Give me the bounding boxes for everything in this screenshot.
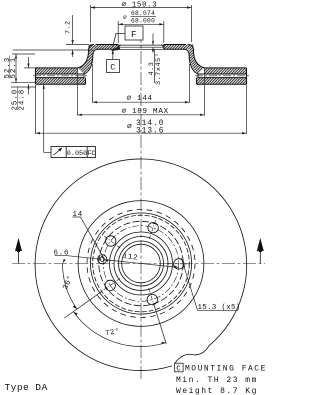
- svg-text:3.7x45°: 3.7x45°: [154, 53, 163, 85]
- hat top plate left: [96, 45, 118, 50]
- bolt hole 3: [102, 278, 120, 291]
- disc top band right: [198, 68, 247, 74]
- svg-text:112: 112: [122, 253, 138, 263]
- vent centerline right: [195, 75, 249, 77]
- feature control frame runout 0.050 FC: [43, 84, 96, 157]
- svg-text:⌀: ⌀: [127, 123, 133, 131]
- svg-text:C: C: [176, 365, 181, 373]
- dimension 112 bolt circle: [104, 259, 179, 267]
- svg-text:⌀ 150.3: ⌀ 150.3: [122, 1, 158, 9]
- svg-text:14: 14: [73, 211, 83, 219]
- svg-text:Type DA: Type DA: [5, 382, 48, 393]
- bolt boss outer circle: [99, 221, 183, 305]
- recess circle 144: [93, 215, 190, 312]
- svg-text:C: C: [110, 62, 115, 72]
- type label: [5, 382, 48, 393]
- bolt hole 2: [102, 235, 120, 248]
- dimension 189 MAX: [78, 69, 205, 117]
- datum C box: [107, 50, 120, 73]
- svg-text:6.6: 6.6: [54, 249, 70, 257]
- svg-text:MOUNTING FACE: MOUNTING FACE: [185, 365, 265, 374]
- hat top plate right: [164, 45, 186, 50]
- section cutting arrow right: [257, 238, 264, 264]
- svg-text:24.8: 24.8: [19, 89, 27, 111]
- svg-text:⌀ 189 MAX: ⌀ 189 MAX: [122, 108, 169, 116]
- bolt circle 112 dashed: [103, 226, 179, 302]
- dimension 68.074/68.000: [118, 16, 164, 43]
- outboard band inner edge circle 166: [87, 210, 195, 318]
- svg-text:313.6: 313.6: [136, 128, 164, 136]
- disc bottom band right: [197, 74, 247, 84]
- svg-text:0.050: 0.050: [67, 150, 87, 158]
- main vertical centerline: [140, 30, 142, 380]
- svg-text:68.074: 68.074: [131, 10, 155, 17]
- hat outer circle 150.3: [90, 213, 191, 314]
- label 14 with leader: [73, 217, 105, 259]
- braking inner edge circle 189: [78, 201, 204, 327]
- bore circle 68: [119, 241, 164, 286]
- horizontal centerline of front view: [12, 263, 270, 265]
- dimension 52.3/52.1: [11, 50, 94, 87]
- chamfer dim 4.3/3.7x45: [152, 34, 155, 84]
- disc left outer edge: [35, 68, 37, 84]
- bore far-side lines: [118, 45, 164, 50]
- hat skirt right: [184, 45, 205, 75]
- svg-text:Weight 8.7 Kg: Weight 8.7 Kg: [176, 387, 258, 395]
- vent centerline left: [33, 75, 87, 77]
- svg-text:15.3 (x5): 15.3 (x5): [198, 304, 241, 312]
- svg-text:7.2: 7.2: [65, 21, 73, 34]
- dimension 314.0/313.6: [36, 85, 247, 134]
- bore chamfer circle: [122, 244, 161, 283]
- bolt boss inner circle: [110, 232, 173, 295]
- bolt hole 1: [148, 218, 158, 239]
- svg-text:F: F: [131, 30, 136, 40]
- dimension 25.0/24.8: [24, 57, 36, 95]
- mounting face note: [175, 363, 184, 372]
- angle leg through hole 3: [64, 291, 102, 318]
- section cutting arrow left: [15, 238, 22, 264]
- svg-text:68.000: 68.000: [131, 18, 155, 25]
- svg-text:⌀ 144: ⌀ 144: [127, 95, 153, 103]
- datum F box: [111, 26, 144, 51]
- dimension 7.2: [66, 15, 89, 57]
- svg-text:⌀: ⌀: [123, 14, 127, 21]
- label 15.3 (x5) with leader: [181, 258, 238, 311]
- dimension 150.3: [91, 5, 192, 42]
- angle leg through hole 4: [155, 306, 167, 344]
- svg-text:Min. TH 23 mm: Min. TH 23 mm: [176, 376, 258, 385]
- hat skirt left: [78, 45, 99, 75]
- disc top band left: [36, 68, 85, 74]
- dimension 144: [93, 64, 190, 103]
- svg-text:52.1: 52.1: [10, 57, 18, 79]
- disc right outer edge: [246, 68, 248, 84]
- 72 degree arc: [73, 312, 166, 347]
- svg-text:FC: FC: [88, 150, 96, 158]
- screw hole 6.6/14: [98, 255, 107, 264]
- label 6.6 with leader: [55, 255, 102, 260]
- bolt hole 4: [147, 288, 157, 310]
- 36 degree arc: [62, 259, 77, 309]
- disc bottom band left: [36, 74, 86, 84]
- bolt hole 5: [167, 259, 190, 269]
- outer circle 314 with label tab: [35, 159, 247, 371]
- register circle: [114, 237, 168, 291]
